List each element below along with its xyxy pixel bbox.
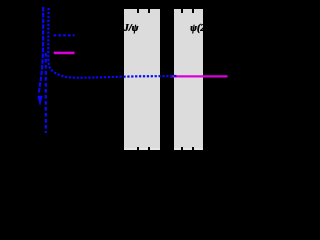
shaded band J/psi xyxy=(124,9,160,150)
left branch curve A xyxy=(39,7,43,94)
bottom tick band2 a xyxy=(181,147,183,151)
top tick band2 b xyxy=(192,9,194,13)
top tick band1 a xyxy=(137,9,139,13)
light strip bottom band1 xyxy=(124,148,160,150)
top tick band2 a xyxy=(181,9,183,13)
bottom tick band1 a xyxy=(137,147,139,151)
bottom tick band1 b xyxy=(148,147,150,151)
legend blue dashed sample xyxy=(54,34,75,36)
bottom tick band2 b xyxy=(192,147,194,151)
label psi(2S) xyxy=(190,24,214,34)
shaded band psi(2S) xyxy=(174,9,202,150)
label J/psi xyxy=(124,24,139,34)
arrowhead down xyxy=(37,96,42,106)
vertical asymptote dashed line xyxy=(45,53,47,133)
main dashed blue curve xyxy=(48,8,177,78)
light strip bottom band2 xyxy=(174,148,202,150)
top tick band1 b xyxy=(148,9,150,13)
legend magenta sample xyxy=(54,52,75,55)
magenta line xyxy=(171,75,228,77)
